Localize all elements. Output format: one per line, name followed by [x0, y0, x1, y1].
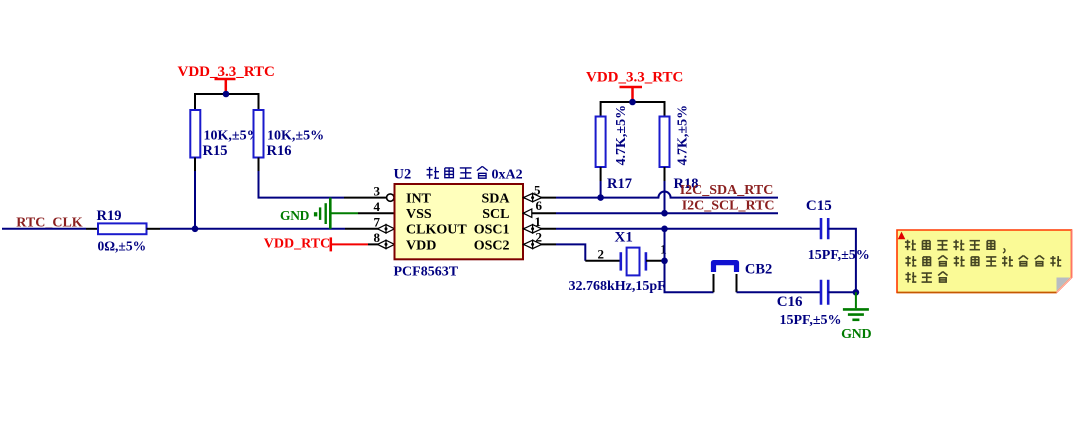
- svg-text:R19: R19: [97, 208, 122, 224]
- svg-text:VSS: VSS: [406, 207, 432, 222]
- power bar symbol VDD_3.3_RTC (right): [620, 87, 643, 101]
- svg-text:32.768kHz,15pF: 32.768kHz,15pF: [569, 279, 666, 294]
- pin stub VDD (pin 8): [368, 243, 395, 245]
- svg-text:4.7K,±5%: 4.7K,±5%: [614, 105, 629, 166]
- svg-text:R15: R15: [203, 143, 228, 159]
- junction dot OSC1/crystal branch: [661, 226, 668, 233]
- junction dot GND corner: [853, 289, 860, 296]
- resistor R19: [98, 223, 147, 234]
- svg-text:VDD_RTC: VDD_RTC: [264, 237, 330, 252]
- svg-text:0xA2: 0xA2: [492, 168, 523, 183]
- capacitor C15: [821, 218, 828, 239]
- wire OSC2 down to crystal: [556, 244, 585, 260]
- wire CB2 to C16: [737, 291, 821, 293]
- svg-text:SDA: SDA: [481, 192, 510, 207]
- junction dot R18/SCL: [661, 210, 668, 217]
- crystal X1: [621, 248, 646, 276]
- pin stub SCL (pin 6): [523, 212, 556, 214]
- power bar symbol VDD_3.3_RTC (left): [215, 79, 236, 93]
- svg-text:15PF,±5%: 15PF,±5%: [808, 248, 870, 263]
- svg-text:U2: U2: [394, 167, 412, 183]
- capacitor C16: [821, 280, 828, 305]
- svg-text:4.7K,±5%: 4.7K,±5%: [676, 105, 691, 166]
- wire SDA with hop over R18 wire: [556, 192, 778, 198]
- note text line 2 根据实际情况选择合适: [905, 256, 916, 266]
- note text line 3 的电容: [905, 272, 916, 282]
- wire rail to R17/R18 tops: [601, 102, 665, 117]
- wire R18 bottom to SCL net: [664, 167, 666, 181]
- svg-text:0Ω,±5%: 0Ω,±5%: [98, 238, 147, 253]
- pin stub OSC2 (pin 2): [523, 243, 556, 245]
- svg-text:15PF,±5%: 15PF,±5%: [780, 313, 842, 328]
- svg-text:SCL: SCL: [482, 207, 509, 222]
- wire rail from VDD_3.3_RTC to R15/R16 tops: [195, 94, 259, 110]
- IO arrow pin 8: [378, 240, 395, 248]
- IO arrow pin 7: [378, 225, 395, 233]
- svg-text:10K,±5%: 10K,±5%: [204, 129, 261, 144]
- wire crystal branch vertical: [665, 229, 714, 292]
- svg-text:C16: C16: [777, 294, 803, 310]
- CB2 legs: [714, 274, 737, 292]
- IO arrow pin 1: [524, 225, 542, 233]
- svg-text:CB2: CB2: [745, 261, 772, 277]
- wire R19 to CLKOUT pin: [147, 228, 161, 230]
- svg-text:I2C_SCL_RTC: I2C_SCL_RTC: [682, 199, 775, 214]
- svg-text:3: 3: [374, 183, 381, 198]
- junction dot R17/SDA: [597, 194, 604, 201]
- resistor R18: [660, 117, 670, 168]
- ground symbol GND (right): [843, 292, 869, 320]
- svg-text:4: 4: [374, 199, 381, 214]
- ground symbol GND (left): [320, 198, 330, 229]
- svg-text:R17: R17: [607, 176, 632, 192]
- input arrow pin 6: [523, 209, 532, 217]
- IO arrow pin 2: [524, 240, 542, 248]
- wire RTC_CLK from left edge to R19: [2, 228, 86, 230]
- wire GND to VSS pin: [330, 212, 358, 214]
- resistor R15: [190, 110, 200, 158]
- inversion bubble on INT pin: [387, 194, 394, 201]
- svg-text:VDD: VDD: [406, 238, 436, 253]
- pin stub OSC1 (pin 1): [523, 228, 556, 230]
- wire C15 right to GND corner: [828, 229, 856, 292]
- note text line 1 频率调整电容，: [905, 240, 916, 250]
- pin stub INT (pin 3): [344, 197, 387, 199]
- wire R17 bottom to SDA net: [600, 167, 602, 181]
- wire R15 bottom to RTC_CLK net: [194, 158, 196, 172]
- svg-text:2: 2: [598, 246, 605, 261]
- svg-text:C15: C15: [806, 198, 832, 214]
- svg-text:VDD_3.3_RTC: VDD_3.3_RTC: [586, 70, 683, 86]
- junction dot crystal right: [661, 258, 668, 265]
- pin stub SDA (pin 5): [523, 197, 556, 199]
- resistor R17: [596, 117, 606, 168]
- note marker triangle: [898, 232, 906, 240]
- svg-text:R16: R16: [267, 143, 292, 159]
- svg-text:X1: X1: [615, 229, 633, 245]
- junction dot at VDD_3.3_RTC left: [223, 91, 230, 98]
- wire OSC1 to C15: [556, 228, 821, 230]
- svg-text:GND: GND: [280, 208, 310, 223]
- pin stub crystal right: [646, 260, 665, 262]
- svg-text:PCF8563T: PCF8563T: [394, 265, 459, 280]
- IC U2 PCF8563T body: [395, 184, 524, 259]
- wire VDD_RTC to VDD pin: [331, 243, 368, 245]
- pin stub VSS (pin 4): [358, 212, 395, 214]
- junction dot VDD right rail: [629, 99, 636, 106]
- svg-text:7: 7: [374, 215, 381, 230]
- svg-text:I2C_SDA_RTC: I2C_SDA_RTC: [680, 183, 774, 198]
- IO arrow pin 5: [524, 193, 542, 201]
- svg-text:VDD_3.3_RTC: VDD_3.3_RTC: [178, 64, 275, 80]
- svg-text:OSC1: OSC1: [474, 223, 510, 238]
- svg-text:8: 8: [374, 230, 381, 245]
- wire SCL: [556, 212, 778, 214]
- note fold corner: [1057, 278, 1071, 292]
- note box (yellow sticky): [897, 230, 1072, 293]
- note border shading: [897, 292, 1057, 294]
- svg-text:GND: GND: [841, 327, 871, 342]
- solder bridge CB2: [714, 263, 737, 272]
- svg-text:OSC2: OSC2: [474, 238, 510, 253]
- svg-text:10K,±5%: 10K,±5%: [267, 129, 324, 144]
- junction dot R15/RTC_CLK: [192, 226, 199, 233]
- title 从机地址 (fake CJK glyphs): [427, 167, 439, 179]
- power bar symbol VDD_RTC: [330, 237, 333, 251]
- wire R16 bottom to INT pin net: [258, 158, 260, 172]
- pin stub CLKOUT (pin 7): [345, 228, 395, 230]
- resistor R16: [254, 110, 264, 158]
- wire C16 right to GND junction: [828, 291, 856, 293]
- svg-text:INT: INT: [406, 192, 432, 207]
- svg-text:CLKOUT: CLKOUT: [406, 223, 467, 238]
